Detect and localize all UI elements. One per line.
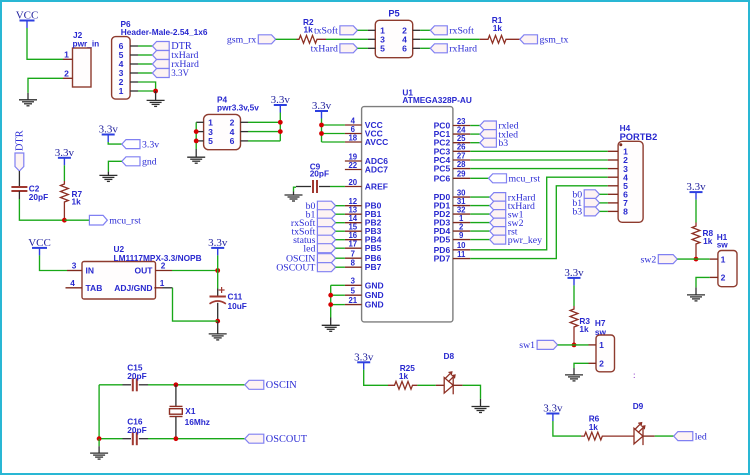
svg-text:8: 8 <box>623 207 628 217</box>
connector P4 pwr3.3v,5v <box>196 95 259 150</box>
svg-text:txHard: txHard <box>311 44 338 55</box>
U1 pin 9 PD5 <box>434 231 471 245</box>
wire <box>677 258 709 260</box>
capacitor C11 10uF polarized <box>210 287 226 321</box>
wire <box>248 121 280 123</box>
wire <box>108 161 121 171</box>
wire <box>138 82 156 91</box>
svg-text:2: 2 <box>64 68 69 78</box>
power 3.3v at P4 <box>271 94 291 113</box>
wire <box>195 122 197 149</box>
U1 pin 14 PB2 <box>345 214 382 228</box>
netflag b1 at U1 <box>306 209 336 220</box>
svg-text:TAB: TAB <box>86 283 103 293</box>
crystal X1 16Mhz <box>170 385 183 439</box>
svg-text:ADC7: ADC7 <box>365 165 388 175</box>
svg-text:10: 10 <box>457 241 466 250</box>
wire <box>553 421 581 436</box>
wire <box>417 384 435 386</box>
svg-text:ADJ/GND: ADJ/GND <box>114 283 152 293</box>
wire <box>40 255 68 270</box>
svg-text:VCC: VCC <box>16 10 39 22</box>
U1 pin 26 PC3 <box>434 143 471 157</box>
svg-text:3.3V: 3.3V <box>171 68 189 78</box>
netflag gsm_rx <box>227 35 276 46</box>
svg-text:3.3v: 3.3v <box>142 139 159 150</box>
svg-text:GND: GND <box>365 280 384 290</box>
wire <box>99 438 122 440</box>
svg-text:11: 11 <box>457 250 466 259</box>
svg-text:5: 5 <box>351 287 356 296</box>
U1 pin 3 GND <box>345 277 384 291</box>
netflag DTR <box>152 41 192 52</box>
wire <box>470 213 489 215</box>
svg-text:led: led <box>695 431 707 442</box>
svg-text:1: 1 <box>160 278 165 288</box>
U1 pin 4 VCC <box>345 116 383 130</box>
svg-text:18: 18 <box>348 133 357 142</box>
wire <box>27 28 63 59</box>
junction <box>572 343 577 348</box>
svg-text:1k: 1k <box>703 236 713 246</box>
ground at C9 <box>285 192 303 202</box>
svg-text:VCC: VCC <box>28 237 51 249</box>
svg-text:X1: X1 <box>185 406 196 416</box>
svg-text:sw: sw <box>717 240 729 250</box>
U1 pin 6 VCC <box>345 125 383 139</box>
netflag txHard at U1 PD <box>490 201 535 212</box>
svg-text:mcu_rst: mcu_rst <box>109 215 141 226</box>
power 3.3v at R6 <box>543 403 563 422</box>
wire <box>63 165 65 181</box>
power VCC top-left <box>16 10 39 29</box>
svg-text:6: 6 <box>402 44 407 54</box>
U1 pin 21 GND <box>345 296 384 310</box>
wire <box>148 438 245 440</box>
ground at H7 <box>565 368 583 381</box>
netflag OSCIN <box>245 380 297 391</box>
power 3.3v at R3 <box>564 267 584 286</box>
wire <box>600 202 608 204</box>
svg-text:GND: GND <box>365 300 384 310</box>
svg-text:5: 5 <box>380 44 385 54</box>
junction <box>153 89 158 94</box>
U1 pin 20 AREF <box>345 178 388 192</box>
wire <box>276 38 297 40</box>
wire <box>331 304 345 306</box>
U1 pin 32 PD2 <box>434 206 471 220</box>
netflag DTR vertical <box>15 130 26 171</box>
svg-text:Header-Male-2.54_1x6: Header-Male-2.54_1x6 <box>121 27 208 37</box>
netflag b1 at H4 <box>572 198 599 209</box>
svg-text:PB5: PB5 <box>365 243 382 253</box>
svg-text:2: 2 <box>721 273 726 283</box>
capacitor C9 20pF <box>313 180 317 193</box>
netflag rxHard at P5 <box>430 44 477 55</box>
netflag rxHard <box>152 59 199 70</box>
wire <box>336 247 345 249</box>
wire <box>331 284 345 286</box>
svg-text:29: 29 <box>457 170 466 179</box>
netflag 3.3v <box>122 139 159 150</box>
wire <box>574 363 589 368</box>
svg-text:1k: 1k <box>72 197 82 207</box>
wire <box>64 219 89 221</box>
junction <box>194 129 199 134</box>
wire <box>217 271 219 289</box>
svg-text:3.3v: 3.3v <box>99 124 119 136</box>
svg-text:3: 3 <box>351 277 356 286</box>
svg-text:rxHard: rxHard <box>449 44 477 55</box>
svg-text:16Mhz: 16Mhz <box>185 417 210 427</box>
wire <box>330 186 345 188</box>
svg-text:pwr3.3v,5v: pwr3.3v,5v <box>217 102 259 112</box>
netflag pwr_key at U1 PD <box>490 235 542 246</box>
wire <box>330 285 332 317</box>
power 3.3v at R8 <box>686 181 706 200</box>
netflag rst at U1 PD <box>490 226 518 237</box>
wire <box>470 142 480 144</box>
capacitor C15 20pF <box>133 378 137 391</box>
power 3.3v at R7 <box>55 147 75 166</box>
wire <box>322 124 345 126</box>
svg-text:9: 9 <box>459 231 464 240</box>
wire <box>364 370 388 386</box>
wire <box>322 133 345 135</box>
resistor R25 1k <box>388 381 417 389</box>
svg-text:1: 1 <box>64 49 69 59</box>
U1 pin 22 ADC7 <box>345 161 388 175</box>
U1 pin 2 PD4 <box>434 223 471 237</box>
wire <box>336 257 345 259</box>
wire <box>358 47 368 49</box>
U1 pin 27 PC4 <box>434 151 471 165</box>
svg-text:gsm_rx: gsm_rx <box>227 35 256 46</box>
svg-text:OSCOUT: OSCOUT <box>266 434 308 445</box>
svg-text:PC6: PC6 <box>434 173 451 183</box>
junction <box>62 218 67 223</box>
connector H1 sw <box>710 251 737 287</box>
U1 pin 11 PD7 <box>434 250 471 264</box>
LED D8 <box>444 372 455 394</box>
svg-text:AVCC: AVCC <box>365 137 388 147</box>
wire <box>696 277 710 287</box>
svg-text:1k: 1k <box>493 23 503 33</box>
wire <box>138 63 152 65</box>
svg-text:OSCIN: OSCIN <box>266 380 297 391</box>
wire <box>172 270 218 272</box>
svg-text:1k: 1k <box>589 422 599 432</box>
netflag txSoft at U1 <box>291 226 335 237</box>
junction <box>97 436 102 441</box>
svg-text:P5: P5 <box>388 8 399 18</box>
netflag b3 at H4 <box>572 207 599 218</box>
junction <box>278 120 283 125</box>
power 3.3v at R25 <box>354 351 374 370</box>
ground at D8 <box>472 399 490 413</box>
LED D9 <box>634 423 645 445</box>
netflag sw1 <box>519 340 557 351</box>
svg-text:26: 26 <box>457 143 466 152</box>
wire <box>248 140 280 142</box>
svg-text:PD7: PD7 <box>434 254 451 264</box>
netflag txHard <box>152 50 198 61</box>
netflag OSCIN at U1 <box>286 253 336 264</box>
svg-text:gsm_tx: gsm_tx <box>540 35 569 46</box>
svg-text:3.3v: 3.3v <box>208 237 228 249</box>
netflag rxled <box>480 121 519 132</box>
junction <box>194 139 199 144</box>
svg-text:3.3v: 3.3v <box>564 267 584 279</box>
wire <box>279 113 281 141</box>
wire <box>655 435 674 437</box>
svg-text:PD5: PD5 <box>434 235 451 245</box>
wire <box>217 255 219 270</box>
junction <box>174 436 179 441</box>
svg-text:sw1: sw1 <box>519 340 535 351</box>
wire <box>470 205 489 207</box>
svg-text:3.3v: 3.3v <box>55 147 75 159</box>
svg-text:3.3v: 3.3v <box>271 94 291 106</box>
connector H7 sw <box>589 335 615 372</box>
wire <box>336 213 345 215</box>
svg-text:txSoft: txSoft <box>314 26 338 37</box>
svg-text:OUT: OUT <box>135 266 154 276</box>
wire <box>463 385 481 399</box>
netflag led <box>674 431 707 442</box>
wire <box>420 47 430 49</box>
wire <box>138 72 152 74</box>
node AREF wire from ground <box>294 187 297 191</box>
svg-text:1k: 1k <box>399 371 409 381</box>
junction <box>174 382 179 387</box>
netflag rxHard at U1 PD <box>490 192 536 203</box>
svg-text:1: 1 <box>721 254 726 264</box>
wire <box>470 168 608 170</box>
netflag mcu_rst at U1 <box>489 174 541 185</box>
svg-text:4: 4 <box>70 278 75 288</box>
netflag OSCOUT at U1 <box>276 262 335 273</box>
svg-text:20pF: 20pF <box>127 371 146 381</box>
wire <box>470 133 480 135</box>
wire <box>470 239 489 241</box>
wire <box>600 193 608 195</box>
svg-text:PB7: PB7 <box>365 262 382 272</box>
svg-text:mcu_rst: mcu_rst <box>509 174 541 185</box>
connector J2 pwr_in <box>63 30 99 87</box>
wire <box>420 29 430 31</box>
U1 pin 23 PC0 <box>434 117 471 131</box>
svg-text:gnd: gnd <box>142 157 157 168</box>
svg-text:LM1117MPX-3.3/NOPB: LM1117MPX-3.3/NOPB <box>114 253 202 263</box>
netflag mcu_rst left <box>89 215 141 226</box>
wire <box>98 439 100 447</box>
wire <box>470 222 489 224</box>
capacitor C16 20pF <box>133 432 137 445</box>
svg-text:1k: 1k <box>304 24 314 34</box>
svg-text:rxSoft: rxSoft <box>449 26 474 37</box>
wire <box>173 288 218 321</box>
svg-text:3: 3 <box>72 261 77 271</box>
junction <box>694 257 699 262</box>
resistor R6 1k <box>581 432 634 440</box>
netflag status at U1 <box>293 235 336 246</box>
svg-text:6: 6 <box>230 136 235 146</box>
U1 pin 8 PB7 <box>345 259 382 273</box>
U1 pin 25 PC2 <box>434 134 471 148</box>
wire <box>470 150 608 152</box>
svg-text:20pF: 20pF <box>127 425 146 435</box>
svg-text:sw2: sw2 <box>641 254 657 265</box>
svg-text:3.3v: 3.3v <box>543 403 563 415</box>
U1 pin 12 PB0 <box>345 197 382 211</box>
svg-text:PC5: PC5 <box>434 164 451 174</box>
connector H4 PORTB2 <box>608 123 658 223</box>
ground at gnd flag <box>99 172 117 182</box>
power 3.3v at U2 out <box>208 237 228 256</box>
wire <box>336 266 345 268</box>
svg-text:PORTB2: PORTB2 <box>620 132 658 142</box>
svg-text:5: 5 <box>208 136 213 146</box>
netflag gsm_tx <box>520 35 569 46</box>
ground at P4 <box>187 149 205 163</box>
netflag txSoft <box>314 26 358 37</box>
svg-text:1: 1 <box>119 86 124 96</box>
connector P6 Header-Male-2.54_1x6 <box>112 19 208 99</box>
wire <box>331 294 345 296</box>
svg-text:OSCOUT: OSCOUT <box>276 262 315 273</box>
svg-text:17: 17 <box>348 240 357 249</box>
voltage regulator U2 LM1117MPX-3.3/NOPB <box>66 244 202 299</box>
netflag sw2 at U1 PD <box>490 218 524 229</box>
wire <box>470 177 488 179</box>
netflag rxSoft at U1 <box>291 218 336 229</box>
svg-text:10uF: 10uF <box>228 301 247 311</box>
U1 pin 31 PD1 <box>434 197 471 211</box>
wire <box>695 200 697 223</box>
netflag OSCOUT <box>245 434 308 445</box>
capacitor C2 20pF <box>11 187 27 191</box>
wire <box>336 205 345 207</box>
U1 pin 10 PD6 <box>434 241 471 255</box>
wire <box>108 142 122 144</box>
wire <box>600 210 608 212</box>
svg-text:3.3v: 3.3v <box>686 181 706 193</box>
svg-text:1k: 1k <box>579 324 589 334</box>
svg-text:pwr_in: pwr_in <box>73 38 100 48</box>
netflag rxSoft <box>430 26 474 37</box>
svg-text:b3: b3 <box>572 207 582 218</box>
U1 pin 15 PB3 <box>345 223 382 237</box>
svg-text::: : <box>633 370 636 380</box>
wire <box>248 131 280 133</box>
U1 pin 28 PC5 <box>434 160 471 174</box>
junction <box>319 131 324 136</box>
wire <box>148 384 245 386</box>
resistor R2 1k <box>297 35 327 43</box>
netflag txled <box>480 129 518 140</box>
svg-text:D8: D8 <box>444 351 455 361</box>
svg-text:22: 22 <box>348 161 357 170</box>
wire <box>138 45 152 47</box>
wire <box>336 239 345 241</box>
svg-text:3.3v: 3.3v <box>354 351 374 363</box>
svg-text:20pF: 20pF <box>310 169 329 179</box>
resistor R7 1k <box>61 181 69 220</box>
U1 pin 17 PB5 <box>345 240 382 254</box>
svg-text:ATMEGA328P-AU: ATMEGA328P-AU <box>402 95 471 105</box>
U1 pin 13 PB1 <box>345 206 382 220</box>
MCU U1 ATMEGA328P-AU <box>362 87 472 322</box>
U1 pin 1 PD3 <box>434 214 471 228</box>
wire <box>322 141 345 143</box>
resistor R3 1k <box>570 306 578 345</box>
wire <box>336 222 345 224</box>
wire <box>470 186 608 259</box>
power 3.3v at flags <box>99 124 119 143</box>
resistor R1 1k <box>480 35 520 43</box>
wire <box>558 344 589 346</box>
svg-text:1: 1 <box>599 340 604 350</box>
netflag b0 at U1 <box>306 201 336 212</box>
U1 pin 16 PB4 <box>345 231 382 245</box>
ground at C11 <box>209 321 227 340</box>
svg-text:IN: IN <box>86 266 95 276</box>
wire <box>336 230 345 232</box>
svg-text:b3: b3 <box>498 138 508 149</box>
junction <box>328 293 333 298</box>
wire <box>358 29 368 31</box>
connector P5 <box>368 8 420 57</box>
wire <box>138 54 152 56</box>
netflag b0 at H4 <box>572 190 599 201</box>
svg-text:21: 21 <box>348 296 357 305</box>
ground at U1 GND <box>322 318 340 332</box>
netflag 3.3V <box>152 68 189 78</box>
svg-text:AREF: AREF <box>365 182 388 192</box>
wire <box>98 385 100 439</box>
ground at P6 pin 1 <box>147 91 165 106</box>
svg-text:2: 2 <box>599 359 604 369</box>
U1 pin 5 GND <box>345 287 384 301</box>
netflag b3 at U1 <box>480 138 508 149</box>
svg-text:DTR: DTR <box>15 130 26 151</box>
ground at oscillator <box>90 446 108 459</box>
wire <box>470 177 608 250</box>
ground at J2 pin 2 <box>19 93 37 106</box>
svg-text:20pF: 20pF <box>29 192 48 202</box>
wire <box>321 119 323 143</box>
U1 pin 24 PC1 <box>434 126 471 140</box>
power VCC at U2 <box>28 237 51 256</box>
junction <box>319 123 324 128</box>
ground at H1 <box>687 287 705 301</box>
wire <box>420 38 480 40</box>
wire <box>470 230 489 232</box>
U1 pin 19 ADC6 <box>345 152 388 166</box>
wire <box>138 90 156 92</box>
wire <box>99 384 122 386</box>
junction <box>278 129 283 134</box>
svg-text:7: 7 <box>351 250 355 259</box>
wire <box>28 78 63 93</box>
svg-text:8: 8 <box>351 259 356 268</box>
wire <box>470 159 608 161</box>
U1 pin 18 AVCC <box>345 133 388 147</box>
wire <box>470 196 489 198</box>
svg-text:20: 20 <box>348 178 357 187</box>
svg-text:pwr_key: pwr_key <box>508 235 542 246</box>
